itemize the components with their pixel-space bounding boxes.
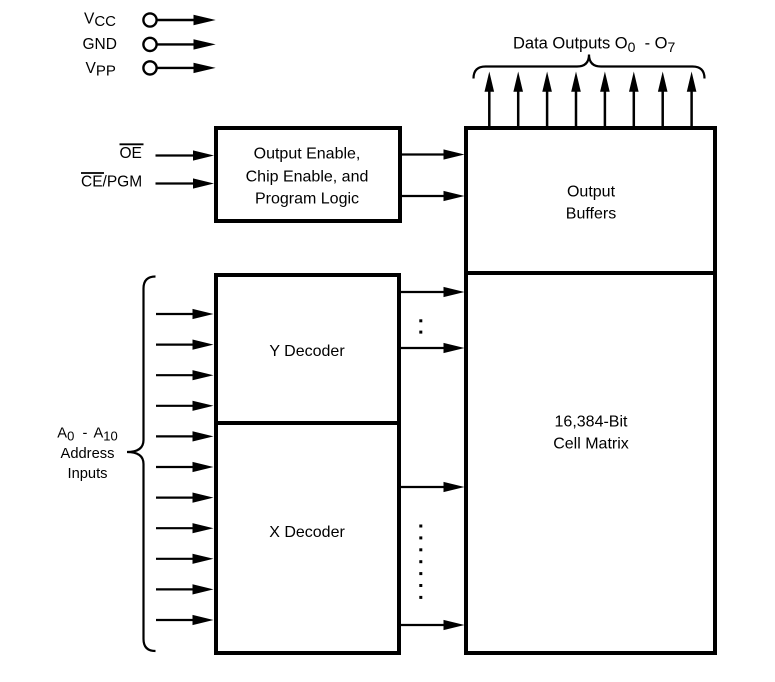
- divider Y/X decoder: [215, 421, 401, 425]
- wire data output O0: [485, 72, 495, 127]
- svg-text:Buffers: Buffers: [566, 205, 616, 222]
- wire X decoder to matrix 2: [400, 620, 465, 630]
- wire data output O1: [513, 72, 523, 127]
- label GND: [83, 36, 117, 53]
- wire X decoder to matrix 1: [400, 482, 465, 492]
- wire VCC: [158, 15, 216, 25]
- pin VPP terminal circle: [143, 61, 156, 74]
- pin VCC terminal circle: [143, 13, 156, 26]
- svg-text:CE/PGM: CE/PGM: [81, 174, 142, 191]
- wire Y decoder to matrix 1: [400, 287, 465, 297]
- brace data outputs: [474, 55, 705, 79]
- dots X decoder lines: [419, 525, 422, 599]
- divider buffers/matrix: [465, 271, 717, 275]
- wire address input A7: [156, 523, 214, 533]
- wire address input A3: [156, 401, 214, 411]
- svg-text:VPP: VPP: [86, 60, 116, 80]
- wire address input A8: [156, 554, 214, 564]
- wire address input A2: [156, 370, 214, 380]
- wire address input A6: [156, 493, 214, 503]
- label VCC: [84, 10, 116, 30]
- wire address input A0: [156, 309, 214, 319]
- label 16,384-Bit Cell Matrix: [553, 414, 629, 453]
- block U1 Output Enable Chip Enable and Program Logic: [216, 128, 400, 221]
- svg-text:Output: Output: [567, 183, 616, 200]
- label Data Outputs O0 - O7: [513, 35, 676, 55]
- label Y Decoder: [269, 343, 345, 360]
- wire OE input: [156, 150, 215, 160]
- brace address inputs: [127, 277, 156, 652]
- label CE/PGM: [81, 173, 142, 191]
- wire address input A10: [156, 615, 214, 625]
- wire logic to buffers 2: [402, 191, 465, 201]
- svg-text:X Decoder: X Decoder: [269, 524, 345, 541]
- label A0 - A10 Address Inputs: [57, 426, 117, 482]
- label VPP: [86, 60, 116, 80]
- block U3 Y Decoder and X Decoder outline: [216, 275, 399, 653]
- wire address input A9: [156, 584, 214, 594]
- svg-text:Program Logic: Program Logic: [255, 191, 359, 208]
- wire data output O7: [687, 72, 697, 127]
- wire CE/PGM input: [156, 178, 215, 188]
- svg-text:OE: OE: [120, 145, 142, 162]
- svg-text:A0 - A10: A0 - A10: [57, 426, 117, 444]
- svg-text:Address: Address: [61, 446, 115, 462]
- wire data output O5: [629, 72, 639, 127]
- wire Y decoder to matrix 2: [400, 343, 465, 353]
- wire data output O6: [658, 72, 668, 127]
- wire address input A4: [156, 431, 214, 441]
- svg-text:VCC: VCC: [84, 10, 116, 30]
- svg-text:Output Enable,: Output Enable,: [254, 146, 361, 163]
- wire data output O4: [600, 72, 610, 127]
- wire address input A1: [156, 340, 214, 350]
- wire data output O2: [542, 72, 552, 127]
- wire GND: [158, 39, 216, 49]
- wire address input A5: [156, 462, 214, 472]
- svg-text:Chip Enable, and: Chip Enable, and: [246, 169, 369, 186]
- block U2 Output Buffers and Cell Matrix outline: [466, 128, 715, 653]
- wire data output O3: [571, 72, 581, 127]
- label OE: [120, 144, 144, 162]
- label Output Buffers: [566, 183, 616, 222]
- wire VPP: [158, 63, 216, 73]
- svg-text:Inputs: Inputs: [67, 466, 107, 482]
- dots Y decoder lines: [419, 319, 422, 333]
- svg-text:16,384-Bit: 16,384-Bit: [555, 414, 628, 431]
- wire logic to buffers 1: [402, 149, 465, 159]
- svg-text:Cell Matrix: Cell Matrix: [553, 435, 629, 452]
- svg-text:Data Outputs O0 - O7: Data Outputs O0 - O7: [513, 35, 676, 55]
- pin GND terminal circle: [143, 38, 156, 51]
- svg-text:GND: GND: [83, 36, 117, 53]
- svg-text:Y Decoder: Y Decoder: [269, 343, 345, 360]
- label X Decoder: [269, 524, 345, 541]
